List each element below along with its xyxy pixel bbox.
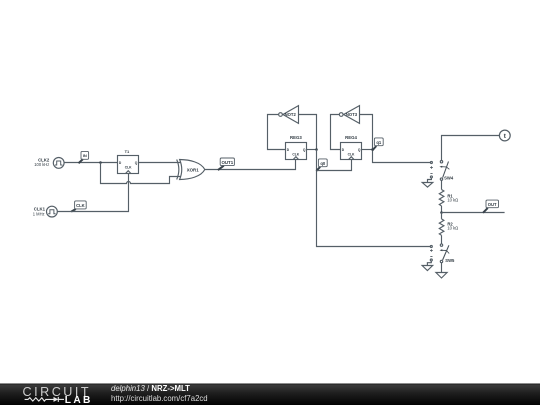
svg-text:CLK: CLK (125, 166, 132, 170)
wire NOT3 input feedback (360, 115, 373, 150)
wire NOT2 output to REG3 D (268, 115, 286, 150)
svg-text:XOR1: XOR1 (187, 167, 200, 172)
ground at SW5 control (422, 266, 433, 271)
wire SW4 to R1 (441, 180, 443, 189)
XOR gate XOR1 (177, 160, 205, 180)
svg-text:http://circuitlab.com/cf7a2cd: http://circuitlab.com/cf7a2cd (111, 394, 208, 403)
node junction q1 (371, 148, 374, 151)
svg-text:10 kΩ: 10 kΩ (447, 197, 458, 202)
wire net q1 down and right to SW4 control (373, 150, 431, 163)
wire NOT3 output to REG4 D (331, 115, 341, 150)
wire CLK1 to T1 CLK (57, 174, 128, 212)
net flag q1 (372, 138, 383, 151)
wire REG3 Q output (307, 149, 317, 151)
wire node t to SW4 (442, 136, 500, 161)
svg-text:REG3: REG3 (290, 135, 302, 140)
wire NOT2 input feedback (299, 115, 317, 150)
flip-flop T1 (118, 149, 139, 174)
svg-text:T1: T1 (125, 149, 130, 154)
ground at SW5 bottom (436, 273, 447, 279)
wire net q0 down and right to SW5 control (317, 150, 431, 247)
node junction q0 (315, 148, 318, 151)
svg-text:q1: q1 (376, 140, 382, 145)
svg-text:NOT3: NOT3 (346, 112, 358, 117)
net flag q0 (316, 159, 327, 171)
wire junction to XOR1 lower input (with hop over CLK wire) (101, 163, 182, 184)
svg-text:OUT1: OUT1 (221, 160, 233, 165)
ground at SW4 control (422, 183, 433, 188)
svg-text:LAB: LAB (65, 395, 93, 405)
wire SW5 control minus to ground (427, 261, 431, 266)
resistor R1 10k (439, 190, 458, 213)
wire SW4 control minus to ground (428, 178, 432, 183)
svg-text:Q: Q (358, 148, 361, 152)
node junction at CLK2 wire (99, 161, 102, 164)
svg-text:CLK: CLK (76, 203, 85, 208)
svg-text:SW4: SW4 (444, 176, 454, 181)
svg-text:NOT2: NOT2 (285, 112, 297, 117)
svg-text:IN: IN (83, 153, 87, 158)
net flag OUT (483, 200, 499, 213)
wire CLK2 to T1 D input (64, 162, 117, 164)
wire OUT net (442, 212, 505, 214)
svg-text:100 kHz: 100 kHz (34, 162, 49, 167)
svg-text:10 kΩ: 10 kΩ (447, 225, 458, 230)
wire XOR1 output to REG3 CLK (205, 160, 296, 170)
svg-text:1 MHz: 1 MHz (33, 212, 45, 217)
register REG3 (286, 135, 307, 159)
node junction OUT (440, 211, 443, 214)
svg-text:CLK: CLK (292, 152, 299, 156)
clock source CLK1 (33, 206, 58, 217)
svg-text:delphin13 / NRZ->MLT: delphin13 / NRZ->MLT (111, 384, 190, 393)
SW4 control terminals (430, 162, 433, 178)
net flag OUT1 (218, 158, 235, 170)
wire SW5 to ground (441, 263, 443, 273)
net flag IN (79, 151, 89, 163)
inverter NOT2 (279, 106, 299, 124)
inverter NOT3 (339, 106, 359, 124)
switch SW4 (439, 161, 453, 181)
svg-text:q0: q0 (320, 161, 326, 166)
wire REG4 CLK to q0 (317, 160, 352, 171)
svg-text:Q: Q (303, 148, 306, 152)
node t terminal (499, 130, 510, 141)
SW5 control terminals (430, 246, 433, 262)
footer bar (0, 384, 540, 405)
resistor R2 10k (439, 213, 458, 244)
wire T1 Q to XOR1 upper input (139, 162, 182, 164)
svg-text:SW5: SW5 (445, 258, 455, 263)
svg-text:REG4: REG4 (345, 135, 357, 140)
CircuitLab logo resistor-diode glyph (25, 397, 64, 402)
wire REG4 Q output (362, 149, 373, 151)
switch SW5 (440, 244, 456, 263)
svg-text:OUT: OUT (488, 202, 497, 207)
clock source CLK2 (34, 157, 64, 168)
net flag CLK (71, 201, 86, 212)
register REG4 (341, 135, 362, 159)
svg-text:CLK: CLK (348, 152, 355, 156)
svg-text:Q: Q (135, 161, 138, 165)
